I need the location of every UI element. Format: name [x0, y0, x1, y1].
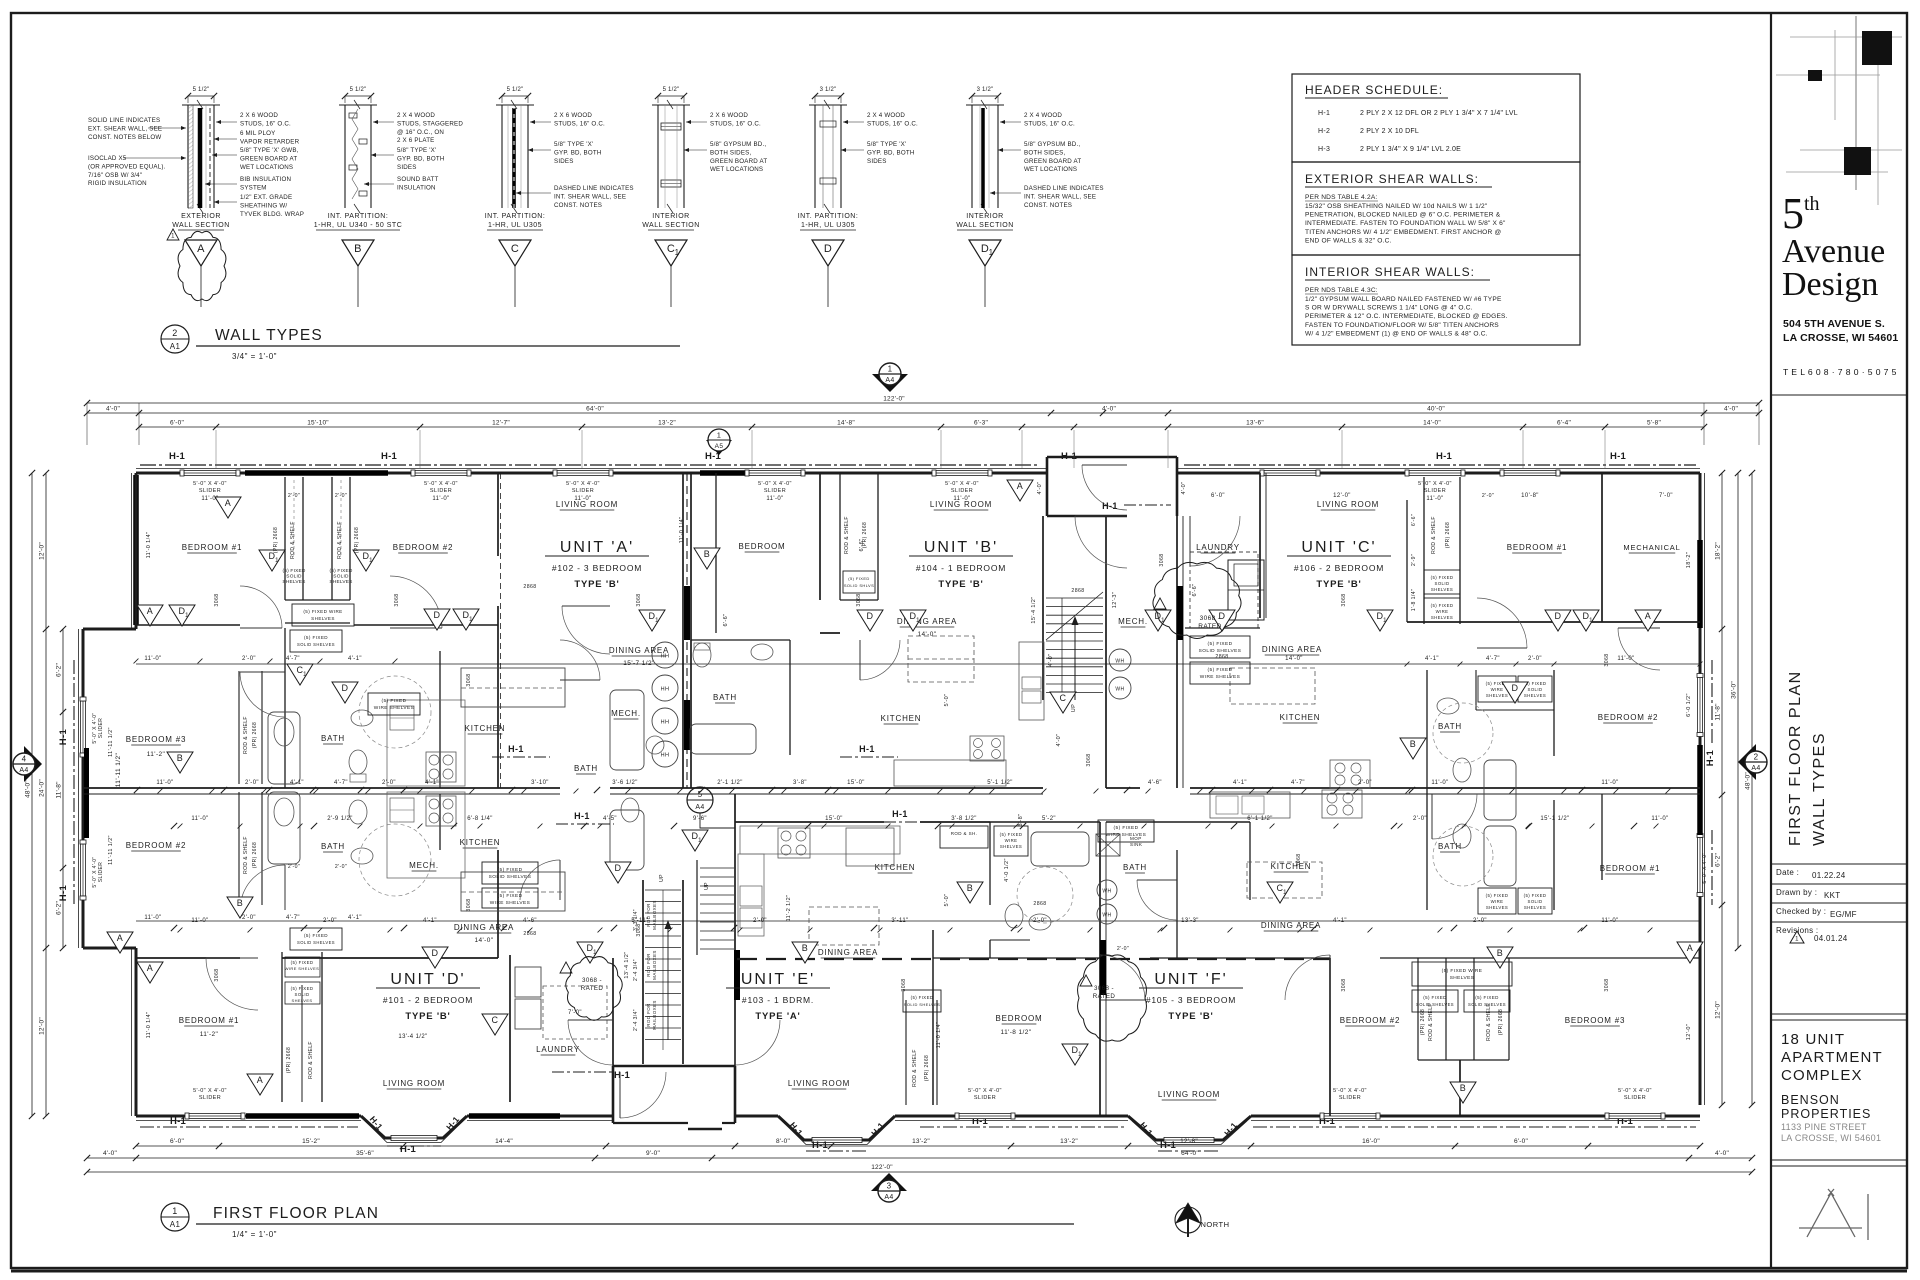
svg-text:Drawn by :: Drawn by :: [1776, 888, 1817, 897]
door arc unit C bed1: [1477, 598, 1527, 648]
kitchen unit C stove: [1330, 760, 1370, 788]
kitchen unit A sink: [390, 706, 414, 730]
unit E bedroom closet: [905, 1000, 907, 1105]
svg-text:122'-0": 122'-0": [871, 1164, 893, 1171]
svg-text:RATED: RATED: [1198, 623, 1222, 630]
svg-text:2'-0": 2'-0": [242, 915, 256, 921]
svg-text:SOLID LINE INDICATES: SOLID LINE INDICATES: [88, 117, 160, 124]
svg-text:BEDROOM #1: BEDROOM #1: [182, 543, 242, 552]
svg-text:BENSON: BENSON: [1781, 1093, 1840, 1107]
svg-text:GREEN BOARD AT: GREEN BOARD AT: [710, 158, 767, 165]
svg-text:ROD FOR: ROD FOR: [646, 1003, 651, 1027]
svg-text:11'-8": 11'-8": [56, 781, 63, 799]
svg-text:(5) FIXED: (5) FIXED: [291, 960, 314, 965]
svg-text:WALL TYPES: WALL TYPES: [215, 327, 323, 344]
left bump-out wall: [82, 629, 85, 948]
unit E walls: [734, 794, 736, 1066]
svg-text:UP: UP: [1071, 704, 1077, 712]
svg-text:ROD & SH.: ROD & SH.: [951, 831, 978, 836]
svg-text:LIVING ROOM: LIVING ROOM: [1158, 1090, 1220, 1099]
wall section C1 body: [657, 105, 659, 208]
svg-text:SOLID: SOLID: [1528, 899, 1543, 904]
svg-text:LIVING ROOM: LIVING ROOM: [1317, 500, 1379, 509]
door arc bedroom2 upper-left: [390, 576, 442, 628]
svg-text:SHELVES: SHELVES: [1000, 844, 1022, 849]
svg-text:SOLID: SOLID: [286, 574, 302, 580]
svg-text:D: D: [342, 683, 349, 693]
svg-text:FASTEN TO FOUNDATION/FLOOR W/: FASTEN TO FOUNDATION/FLOOR W/ 5/8" TITEN…: [1305, 322, 1499, 329]
svg-text:BEDROOM: BEDROOM: [996, 1014, 1043, 1023]
bottom dimension overall: [87, 1171, 1752, 1173]
svg-text:3068: 3068: [1341, 978, 1347, 991]
svg-text:2'-4 3/4": 2'-4 3/4": [633, 959, 639, 981]
wall section tag B: [342, 240, 374, 266]
svg-text:14'-0": 14'-0": [1285, 656, 1303, 662]
svg-text:TITEN ANCHORS W/ 4 1/2" EMBEDM: TITEN ANCHORS W/ 4 1/2" EMBEDMENT. FIRST…: [1305, 229, 1502, 236]
svg-text:ROD FOR: ROD FOR: [646, 903, 651, 927]
svg-text:6'-0": 6'-0": [1211, 493, 1225, 499]
kitchen unit F stove: [1322, 790, 1362, 818]
svg-text:2'-0": 2'-0": [1358, 780, 1372, 786]
svg-text:STUDS, 16" O.C.: STUDS, 16" O.C.: [240, 120, 291, 127]
svg-text:WIRE: WIRE: [1436, 609, 1449, 614]
left H-1 header line: [73, 660, 75, 905]
svg-text:13'-2": 13'-2": [658, 420, 676, 427]
svg-text:4'-7": 4'-7": [1291, 780, 1305, 786]
svg-text:5'-1 1/2": 5'-1 1/2": [987, 780, 1013, 786]
svg-text:5 1/2": 5 1/2": [663, 87, 680, 93]
door arc unit B bath: [860, 640, 900, 680]
svg-text:1: 1: [698, 837, 702, 844]
svg-text:(PR) 2668: (PR) 2668: [1445, 522, 1451, 548]
svg-text:4'-6": 4'-6": [523, 918, 537, 924]
svg-text:11'-0 1/4": 11'-0 1/4": [146, 1012, 152, 1039]
svg-text:11'-0": 11'-0": [201, 496, 218, 502]
svg-text:INT. PARTITION:: INT. PARTITION:: [485, 213, 546, 220]
svg-text:12'-3": 12'-3": [1112, 592, 1118, 608]
svg-text:5'-8": 5'-8": [1647, 420, 1661, 427]
bottom wall shear black segments: [246, 1113, 359, 1119]
svg-text:SHELVES: SHELVES: [311, 616, 335, 621]
svg-text:#101 - 2 BEDROOM: #101 - 2 BEDROOM: [383, 995, 473, 1005]
svg-text:WALL SECTION: WALL SECTION: [172, 222, 230, 229]
svg-text:LA CROSSE, WI 54601: LA CROSSE, WI 54601: [1781, 1133, 1881, 1143]
bedroom1 bottom wall: [136, 624, 240, 626]
svg-text:13'-6": 13'-6": [1246, 420, 1264, 427]
svg-text:UNIT 'F': UNIT 'F': [1154, 971, 1227, 988]
bath unit B sink: [751, 644, 773, 660]
svg-text:SLIDER: SLIDER: [430, 488, 452, 494]
svg-text:11'-0": 11'-0": [144, 656, 161, 662]
svg-text:SOLID: SOLID: [1435, 581, 1450, 586]
bath unit C fixtures: [1484, 760, 1516, 820]
svg-text:11'-2 1/2": 11'-2 1/2": [786, 895, 792, 922]
svg-text:64'-0": 64'-0": [1181, 1150, 1199, 1157]
svg-text:PROPERTIES: PROPERTIES: [1781, 1107, 1871, 1121]
mid horizontal wall: [83, 787, 560, 789]
svg-text:SLIDER: SLIDER: [199, 488, 221, 494]
svg-text:4'-7": 4'-7": [286, 915, 300, 921]
svg-text:2 PLY 1 3/4" X 9 1/4" LVL 2.0E: 2 PLY 1 3/4" X 9 1/4" LVL 2.0E: [1360, 146, 1461, 153]
svg-text:5'-0" X 4'-0": 5'-0" X 4'-0": [1333, 1088, 1367, 1094]
svg-text:5/8" TYPE 'X': 5/8" TYPE 'X': [397, 147, 436, 154]
bath unit E toilet: [1005, 904, 1023, 928]
svg-text:6'-6": 6'-6": [723, 614, 729, 627]
svg-text:2868: 2868: [523, 584, 536, 590]
svg-text:C: C: [511, 243, 519, 255]
svg-text:11'-0": 11'-0": [1651, 816, 1668, 822]
svg-text:15'-0": 15'-0": [825, 816, 843, 822]
svg-text:TYPE 'B': TYPE 'B': [938, 579, 983, 590]
lower-right bedroom walls: [1329, 958, 1331, 1116]
svg-text:CONST. NOTES: CONST. NOTES: [554, 202, 602, 209]
svg-text:BATH: BATH: [321, 734, 345, 743]
kitchen unit D counters: [387, 792, 465, 878]
kitchen unit B island dashed: [908, 636, 974, 682]
svg-text:(OR APPROVED EQUAL).: (OR APPROVED EQUAL).: [88, 163, 166, 170]
unit F interior walls: [1176, 850, 1178, 958]
svg-text:INT. PARTITION:: INT. PARTITION:: [328, 213, 389, 220]
svg-text:11'-2": 11'-2": [200, 1031, 219, 1038]
door tag D: [422, 947, 448, 968]
svg-text:3068: 3068: [1296, 853, 1302, 866]
svg-text:5/8" TYPE 'X': 5/8" TYPE 'X': [867, 141, 906, 148]
svg-text:A1: A1: [170, 342, 181, 351]
svg-text:BATH: BATH: [321, 842, 345, 851]
top dimension extension lines: [86, 403, 88, 445]
svg-text:(5) FIXED: (5) FIXED: [1524, 893, 1547, 898]
svg-text:UNIT 'B': UNIT 'B': [924, 539, 998, 556]
svg-text:W/ 4 1/2" EMBEDMENT (1) @ END: W/ 4 1/2" EMBEDMENT (1) @ END OF WALLS &…: [1305, 330, 1488, 337]
svg-text:1: 1: [593, 949, 597, 956]
bath upper-left sink: [351, 710, 373, 726]
unit C hall wall: [1406, 500, 1408, 622]
door tag D1: [639, 610, 665, 631]
door tag D: [1545, 610, 1571, 631]
svg-text:SOLID SHELVES: SOLID SHELVES: [297, 642, 335, 647]
svg-text:2868: 2868: [1215, 654, 1228, 660]
svg-text:2 X 6 PLATE: 2 X 6 PLATE: [397, 137, 435, 144]
bottom wall H-1 dash lines: [140, 1126, 358, 1128]
svg-text:BATH: BATH: [1123, 863, 1147, 872]
svg-text:RATED: RATED: [581, 985, 604, 992]
svg-text:SOLID SHELVES: SOLID SHELVES: [297, 940, 335, 945]
unit E-F north wall: [735, 821, 884, 823]
svg-text:H-1: H-1: [169, 451, 185, 462]
svg-text:5'-0": 5'-0": [944, 694, 950, 707]
svg-text:5'-0" X 4'-0": 5'-0" X 4'-0": [424, 481, 458, 487]
bedroom2 C closet: [1475, 670, 1477, 710]
north arrow: [1175, 1207, 1201, 1233]
svg-text:@ 16" O.C., ON: @ 16" O.C., ON: [397, 129, 444, 136]
bath lower-right tub: [1484, 826, 1516, 886]
svg-text:2'-0": 2'-0": [323, 918, 337, 924]
mop sink unit F: [1096, 834, 1120, 856]
svg-text:2'-0": 2'-0": [1528, 656, 1542, 662]
svg-text:4'-0": 4'-0": [1724, 406, 1738, 413]
svg-text:6'-1 1/2": 6'-1 1/2": [1247, 816, 1273, 822]
svg-text:3'-10": 3'-10": [531, 780, 549, 786]
svg-text:5'-0" X 4'-0": 5'-0" X 4'-0": [193, 1088, 227, 1094]
svg-text:11'-0 1/4": 11'-0 1/4": [679, 517, 685, 544]
svg-text:3'-6 1/2": 3'-6 1/2": [612, 780, 638, 786]
door tag A: [1677, 942, 1703, 963]
logo black square large: [1862, 31, 1892, 65]
top dimension tier 3: [139, 426, 1704, 428]
svg-text:GREEN BOARD AT: GREEN BOARD AT: [240, 155, 297, 162]
logo black square mid: [1844, 147, 1871, 175]
bath lower-left toilet: [349, 800, 367, 824]
svg-text:2'-0": 2'-0": [335, 864, 347, 870]
north entry vestibule: [1046, 457, 1049, 516]
svg-text:BATH: BATH: [574, 764, 598, 773]
svg-text:1: 1: [469, 616, 473, 623]
unit C closet shelf boxes right: [1424, 570, 1460, 594]
svg-text:(5) FIXED: (5) FIXED: [1208, 641, 1233, 647]
svg-text:1: 1: [675, 248, 680, 257]
kitchen unit B stove: [970, 736, 1004, 761]
svg-text:H-1: H-1: [170, 1116, 186, 1127]
svg-text:ISOCLAD X5: ISOCLAD X5: [88, 155, 127, 162]
svg-text:MAILBOXES: MAILBOXES: [652, 900, 657, 930]
svg-text:CONST. NOTES BELOW: CONST. NOTES BELOW: [88, 134, 161, 141]
right dimension tiers: [1721, 473, 1723, 1105]
svg-text:RATED: RATED: [1093, 993, 1116, 1000]
svg-text:4'-1": 4'-1": [423, 918, 437, 924]
svg-text:2'-0": 2'-0": [288, 864, 300, 870]
svg-text:CONST. NOTES: CONST. NOTES: [1024, 202, 1072, 209]
door arc unit D bath: [520, 860, 560, 900]
door tag A: [137, 605, 163, 626]
svg-text:WIRE: WIRE: [1491, 899, 1504, 904]
unit E bath closet boxes: [940, 826, 988, 848]
svg-text:H-1: H-1: [574, 811, 590, 821]
bay window unit E: [778, 1116, 895, 1140]
svg-text:WH: WH: [1115, 659, 1124, 665]
svg-text:(5) FIXED: (5) FIXED: [848, 576, 869, 581]
door tag A: [1007, 480, 1033, 501]
svg-text:3: 3: [887, 1182, 892, 1191]
kitchen unit B counter along wall: [894, 760, 1006, 786]
svg-text:5: 5: [698, 790, 703, 799]
svg-text:1: 1: [369, 557, 373, 564]
svg-text:3'-8": 3'-8": [793, 780, 807, 786]
svg-text:4'-5": 4'-5": [603, 816, 617, 822]
unit C interior walls: [1259, 473, 1261, 618]
svg-text:2'-0": 2'-0": [1482, 493, 1494, 499]
bath A tub: [610, 690, 644, 770]
door tag B: [227, 897, 253, 918]
svg-text:2'-9 1/2": 2'-9 1/2": [327, 816, 353, 822]
door tag A: [1635, 610, 1661, 631]
entry vestibule south: [612, 1066, 615, 1123]
kitchen unit D island: [461, 872, 565, 911]
svg-text:UNIT 'E': UNIT 'E': [741, 971, 815, 988]
svg-text:SHELVES: SHELVES: [1450, 975, 1475, 981]
svg-text:4'-1": 4'-1": [1333, 918, 1347, 924]
plan title circle: [161, 1203, 189, 1231]
svg-text:64'-0": 64'-0": [586, 406, 604, 413]
svg-text:MECH.: MECH.: [409, 861, 439, 870]
header schedule box: [1292, 74, 1580, 162]
svg-text:BEDROOM #2: BEDROOM #2: [126, 841, 186, 850]
vestibule header: [1124, 504, 1171, 506]
svg-text:H-1: H-1: [58, 884, 69, 901]
bath D fixtures: [610, 810, 644, 870]
kitchen unit F counter: [1210, 792, 1290, 818]
svg-text:KITCHEN: KITCHEN: [1271, 862, 1312, 871]
svg-text:H-1: H-1: [1610, 451, 1626, 462]
svg-text:15'-0": 15'-0": [847, 780, 865, 786]
svg-text:Checked by :: Checked by :: [1776, 907, 1826, 916]
svg-text:H-1: H-1: [859, 744, 875, 754]
door arc unit C entry: [1190, 516, 1240, 566]
logo mondrian lines: [1855, 16, 1857, 190]
door tag D1: [577, 942, 603, 963]
elevation marker left: [13, 746, 42, 782]
sheet number A1: [1799, 1189, 1868, 1240]
wall bedroom2-living unit A: [497, 473, 499, 556]
exterior shear walls box: [1292, 162, 1580, 255]
svg-text:EXTERIOR: EXTERIOR: [181, 213, 221, 220]
svg-text:(5) FIXED WIRE: (5) FIXED WIRE: [303, 609, 342, 614]
svg-text:5/8" GYPSUM BD.,: 5/8" GYPSUM BD.,: [710, 141, 766, 148]
svg-text:DASHED LINE INDICATES: DASHED LINE INDICATES: [1024, 185, 1104, 192]
svg-text:SOLID SHELVES: SOLID SHELVES: [1468, 1002, 1506, 1007]
svg-text:BOTH SIDES,: BOTH SIDES,: [1024, 149, 1065, 156]
stair arrow: [1074, 620, 1076, 700]
svg-text:3068: 3068: [1086, 753, 1092, 766]
svg-text:6'-6": 6'-6": [1192, 584, 1198, 597]
svg-text:11'-0": 11'-0": [432, 496, 449, 502]
door tag C1: [287, 664, 313, 685]
svg-text:D: D: [1555, 611, 1562, 621]
wall section C body: [501, 105, 503, 208]
svg-text:4'-0": 4'-0": [1102, 406, 1116, 413]
unit E bedroom wall: [932, 930, 934, 1105]
svg-text:ROD & SHELF: ROD & SHELF: [1428, 1003, 1434, 1041]
svg-text:04.01.24: 04.01.24: [1814, 934, 1848, 943]
svg-text:TYPE 'B': TYPE 'B': [405, 1011, 450, 1022]
svg-text:STUDS, 16" O.C.: STUDS, 16" O.C.: [1024, 120, 1075, 127]
svg-text:1: 1: [171, 234, 175, 240]
svg-text:5/8" TYPE 'X': 5/8" TYPE 'X': [554, 141, 593, 148]
svg-text:13'-4 1/2": 13'-4 1/2": [624, 951, 630, 978]
left bump-out shear wall black: [84, 748, 89, 838]
svg-text:1: 1: [1078, 1051, 1082, 1058]
svg-text:SLIDER: SLIDER: [974, 1095, 996, 1101]
svg-text:KITCHEN: KITCHEN: [875, 863, 916, 872]
svg-text:5 1/2": 5 1/2": [350, 87, 367, 93]
svg-text:10'-8": 10'-8": [1521, 493, 1539, 499]
bottom wall windows: [189, 1113, 241, 1118]
svg-text:(PR) 2668: (PR) 2668: [252, 722, 258, 748]
svg-text:1-HR, UL U305: 1-HR, UL U305: [488, 222, 542, 229]
svg-text:ROD & SHELF: ROD & SHELF: [243, 836, 249, 874]
svg-text:LIVING ROOM: LIVING ROOM: [788, 1079, 850, 1088]
svg-text:11'-0": 11'-0": [1601, 918, 1618, 924]
svg-text:SLIDER: SLIDER: [572, 488, 594, 494]
door tag B: [1450, 1082, 1476, 1103]
svg-text:SHELVES: SHELVES: [329, 579, 352, 585]
svg-text:6'-2": 6'-2": [56, 901, 63, 915]
bath unit B toilet: [693, 643, 711, 667]
svg-text:A: A: [257, 1075, 263, 1085]
svg-text:END OF WALLS & 32" O.C.: END OF WALLS & 32" O.C.: [1305, 237, 1392, 244]
svg-text:3'-11": 3'-11": [891, 918, 908, 924]
door arc unit B entry: [1075, 516, 1127, 568]
svg-text:(5) FIXED: (5) FIXED: [911, 995, 934, 1000]
svg-text:UP: UP: [704, 882, 710, 890]
dimension line y664 full width: [136, 663, 1700, 665]
svg-text:5'-0" X 4'-0": 5'-0" X 4'-0": [1418, 481, 1452, 487]
water heater circles unit B mech: [1109, 649, 1131, 671]
door tag D: [424, 609, 450, 630]
svg-text:A1: A1: [170, 1220, 181, 1229]
svg-text:35'-6": 35'-6": [356, 1150, 374, 1157]
svg-text:11'-0 1/4": 11'-0 1/4": [146, 532, 152, 559]
svg-text:#102 - 3 BEDROOM: #102 - 3 BEDROOM: [552, 563, 642, 573]
svg-text:RIGID INSULATION: RIGID INSULATION: [88, 180, 147, 187]
svg-text:COMPLEX: COMPLEX: [1781, 1067, 1863, 1084]
svg-text:KITCHEN: KITCHEN: [465, 724, 506, 733]
svg-text:GREEN BOARD AT: GREEN BOARD AT: [1024, 158, 1081, 165]
kitchen unit A stove: [426, 752, 456, 782]
svg-text:3068: 3068: [466, 673, 472, 686]
unit B-C party wall: [1176, 516, 1178, 788]
svg-text:3068: 3068: [856, 593, 862, 606]
svg-text:(5) FIXED: (5) FIXED: [1423, 995, 1447, 1000]
svg-text:FIRST FLOOR PLAN: FIRST FLOOR PLAN: [1787, 670, 1804, 846]
svg-text:SHELVES: SHELVES: [1431, 615, 1453, 620]
svg-text:(PR) 2668: (PR) 2668: [273, 527, 279, 553]
svg-text:6 MIL PLOY: 6 MIL PLOY: [240, 130, 275, 137]
bath unit E tub: [1031, 832, 1089, 866]
svg-text:WET LOCATIONS: WET LOCATIONS: [1024, 166, 1077, 173]
svg-text:1-HR, UL U340 - 50 STC: 1-HR, UL U340 - 50 STC: [314, 222, 403, 229]
svg-text:(5) FIXED: (5) FIXED: [1486, 893, 1509, 898]
svg-text:B: B: [237, 898, 243, 908]
svg-text:INT. SHEAR WALL, SEE: INT. SHEAR WALL, SEE: [1024, 193, 1096, 200]
svg-text:A: A: [1687, 943, 1693, 953]
svg-text:BATH: BATH: [1438, 842, 1462, 851]
svg-text:HH: HH: [661, 720, 670, 726]
unit B bath walls: [691, 639, 790, 641]
svg-text:18'-2": 18'-2": [1686, 552, 1692, 568]
svg-text:B: B: [967, 883, 973, 893]
svg-text:VAPOR RETARDER: VAPOR RETARDER: [240, 138, 300, 145]
section marker 1-A5: [706, 440, 732, 455]
svg-text:STUDS, 16" O.C.: STUDS, 16" O.C.: [867, 120, 918, 127]
door arc unit F bed2: [1100, 955, 1145, 1000]
upper bath walls right: [1426, 670, 1428, 910]
svg-text:12'-0": 12'-0": [39, 1017, 46, 1035]
svg-text:(5) FIXED: (5) FIXED: [1114, 825, 1139, 831]
svg-text:WIRE SHELVES: WIRE SHELVES: [1200, 674, 1240, 680]
svg-text:12'-0": 12'-0": [1333, 493, 1351, 499]
svg-text:WIRE: WIRE: [1491, 687, 1504, 692]
upper right closets: [1423, 477, 1425, 624]
svg-text:2'-1 1/2": 2'-1 1/2": [717, 780, 743, 786]
svg-text:1: 1: [916, 617, 920, 624]
svg-text:5/8" TYPE 'X' GWB,: 5/8" TYPE 'X' GWB,: [240, 147, 299, 154]
svg-text:4'-1": 4'-1": [290, 780, 304, 786]
svg-text:BEDROOM #3: BEDROOM #3: [1565, 1016, 1625, 1025]
svg-text:01.22.24: 01.22.24: [1812, 871, 1846, 880]
door arc south vestibule: [620, 1072, 666, 1118]
svg-text:4'-1": 4'-1": [425, 780, 439, 786]
svg-text:MOP: MOP: [1130, 836, 1142, 841]
